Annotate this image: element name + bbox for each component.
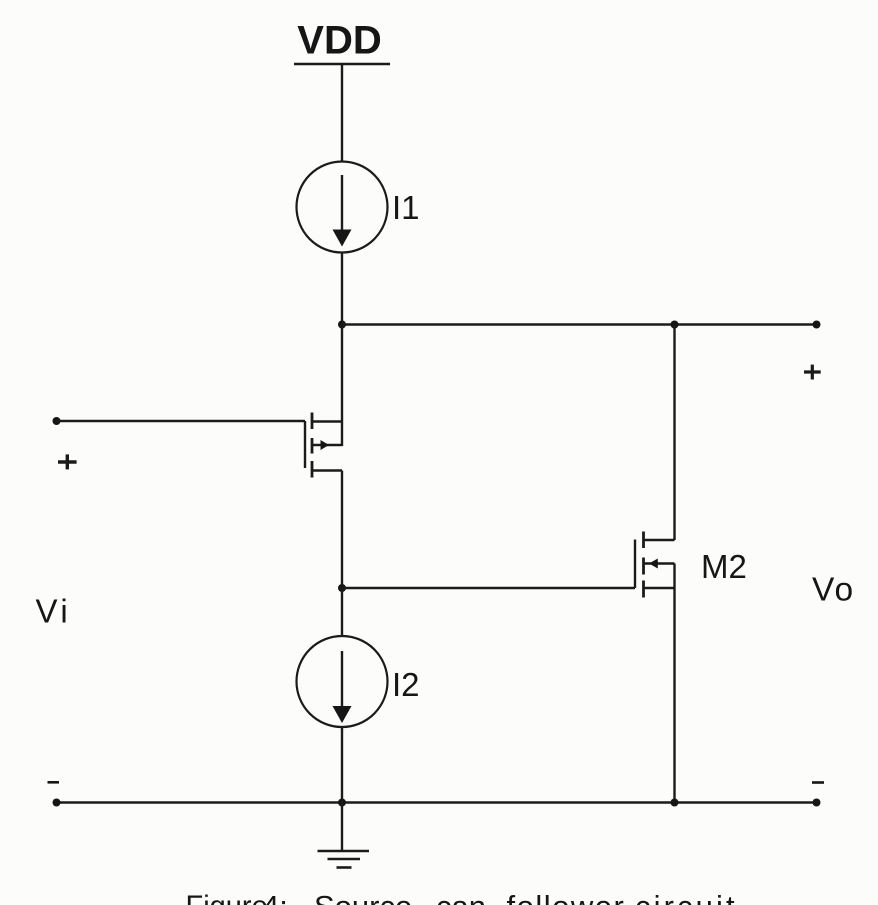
svg-text:Vo: Vo <box>812 572 855 609</box>
VDD supply bar <box>294 63 390 66</box>
label - at output bottom <box>812 781 824 784</box>
wire I1 bottom to node A <box>341 253 343 325</box>
label + at output <box>804 365 821 380</box>
wire output node down to M2 drain <box>673 325 675 541</box>
wire input terminal to M1 gate <box>57 420 306 422</box>
svg-text:I2: I2 <box>392 666 420 703</box>
wire node B to I2 top <box>341 588 343 636</box>
svg-text:Figure: Figure <box>186 891 268 905</box>
svg-text:I1: I1 <box>392 189 420 226</box>
node A junction dot <box>338 321 346 329</box>
svg-text:VDD: VDD <box>297 19 381 63</box>
node B junction dot <box>338 584 346 592</box>
input terminal dot <box>53 417 61 425</box>
svg-text:4:: 4: <box>262 889 288 905</box>
wire VDD bar to I1 top <box>341 64 343 162</box>
svg-text:Vi: Vi <box>36 593 72 630</box>
junction dot at M2 drain branch <box>671 321 679 329</box>
wire node A to M1 drain/bulk <box>341 325 343 447</box>
transistor M2 <box>635 532 675 598</box>
svg-text:can: can <box>436 889 486 905</box>
output terminal dot <box>813 321 821 329</box>
label + at input <box>58 454 77 469</box>
figure caption (clipped at page bottom) <box>186 889 738 905</box>
label - at input bottom <box>48 781 60 784</box>
svg-text:circuit: circuit <box>635 889 738 905</box>
rail junction dot right <box>671 799 679 807</box>
svg-text:follower: follower <box>507 889 626 905</box>
svg-text:Source: Source <box>314 889 412 905</box>
rail terminal dot right <box>813 799 821 807</box>
ground symbol <box>318 803 370 868</box>
wire I2 bottom to ground rail <box>341 727 343 803</box>
current source I1 <box>297 162 388 253</box>
current source I2 <box>297 636 388 727</box>
wire M2 bulk/source down to ground rail <box>673 564 675 803</box>
rail junction dot center <box>338 799 346 807</box>
rail terminal dot left <box>53 799 61 807</box>
ground rail <box>56 801 817 803</box>
transistor M1 <box>305 413 342 478</box>
svg-text:M2: M2 <box>701 548 747 585</box>
wire node B to M2 gate <box>342 587 635 589</box>
wire M1 source to node B <box>341 471 343 589</box>
wire node A to output terminal (top rail) <box>342 323 817 325</box>
